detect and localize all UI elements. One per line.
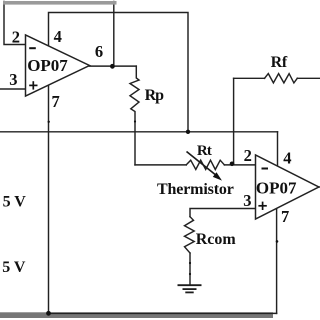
junction dot: op1 output/feedback [110, 64, 115, 69]
wire: op1 output to Rp corner [90, 65, 137, 67]
svg-text:7: 7 [52, 92, 60, 111]
wire: op2 pin3 input with Rcom corner [190, 209, 256, 217]
resistor Rf (horizontal zigzag) [265, 74, 298, 83]
svg-text:2: 2 [244, 146, 252, 165]
op-amp U1 plus sign [29, 81, 37, 89]
wire: op1 pin7 down [48, 85, 50, 313]
wire: Rf branch vertical [233, 78, 235, 163]
wire: op1 feedback loop left vertical [4, 2, 26, 45]
wire: feedback vertical to output [113, 2, 115, 67]
svg-text:2: 2 [12, 27, 20, 46]
bottom border bar (gray) [0, 312, 273, 318]
wire: Rt to op2 pin2 [224, 164, 255, 166]
op-amp U2 OP07 triangle [256, 155, 319, 219]
svg-text:OP07: OP07 [256, 179, 297, 198]
wire: Rcom to ground [189, 253, 191, 285]
junction dot: bottom-left corner [46, 311, 51, 316]
wire: bottom rail [49, 312, 277, 314]
svg-text:6: 6 [95, 42, 103, 61]
svg-text:Rcom: Rcom [196, 231, 237, 248]
op-amp U1 OP07 triangle [26, 35, 90, 96]
wire: Rp bottom to thermistor [135, 164, 186, 166]
op-amp U2 minus sign [262, 168, 269, 170]
svg-text:7: 7 [281, 207, 289, 226]
wire: Rf right lead to edge [297, 77, 320, 79]
svg-text:3: 3 [9, 70, 17, 89]
wire: op1 pin4 up and over to node rail [49, 13, 189, 132]
resistor Rp (vertical zigzag) [130, 66, 139, 165]
resistor Rt thermistor zigzag [186, 160, 224, 169]
svg-text:Rf: Rf [271, 54, 288, 71]
svg-text:4: 4 [54, 27, 62, 46]
svg-text:Rp: Rp [145, 87, 165, 104]
tiny dot on Rp lower lead [134, 120, 136, 122]
svg-text:4: 4 [283, 149, 291, 168]
svg-text:5 V: 5 V [3, 193, 27, 210]
thermistor arrow [187, 152, 218, 177]
tiny dot on Rcom lead upper [189, 262, 191, 264]
junction dot: Rt/Rf/pin2 node [230, 162, 235, 167]
svg-text:5 V: 5 V [2, 259, 26, 276]
op-amp U1 minus sign [29, 47, 36, 49]
tiny dot on Rcom lead lower [189, 273, 191, 275]
svg-text:OP07: OP07 [27, 56, 68, 75]
tiny dot on op2 pin7 wire [276, 240, 279, 243]
wire: op2 pin4 down from rail [277, 132, 279, 166]
wire: op1 pin3 input [0, 88, 26, 90]
svg-text:Thermistor: Thermistor [157, 181, 234, 198]
wire: horizontal node rail y=132 [0, 131, 278, 133]
svg-text:3: 3 [243, 191, 251, 210]
op-amp U2 plus sign [258, 202, 266, 210]
top border bar (gray) [3, 1, 117, 5]
wire: op2 pin7 down [276, 209, 278, 314]
junction dot: rail / pin4 loop [186, 130, 190, 134]
resistor Rcom (vertical zigzag) [185, 217, 195, 253]
tiny dot on op1 pin7 wire [48, 121, 50, 123]
wire: Rf left lead [234, 77, 265, 79]
wire: op2 output stub [319, 186, 320, 188]
svg-text:Rt: Rt [197, 143, 212, 159]
ground [178, 285, 202, 292]
